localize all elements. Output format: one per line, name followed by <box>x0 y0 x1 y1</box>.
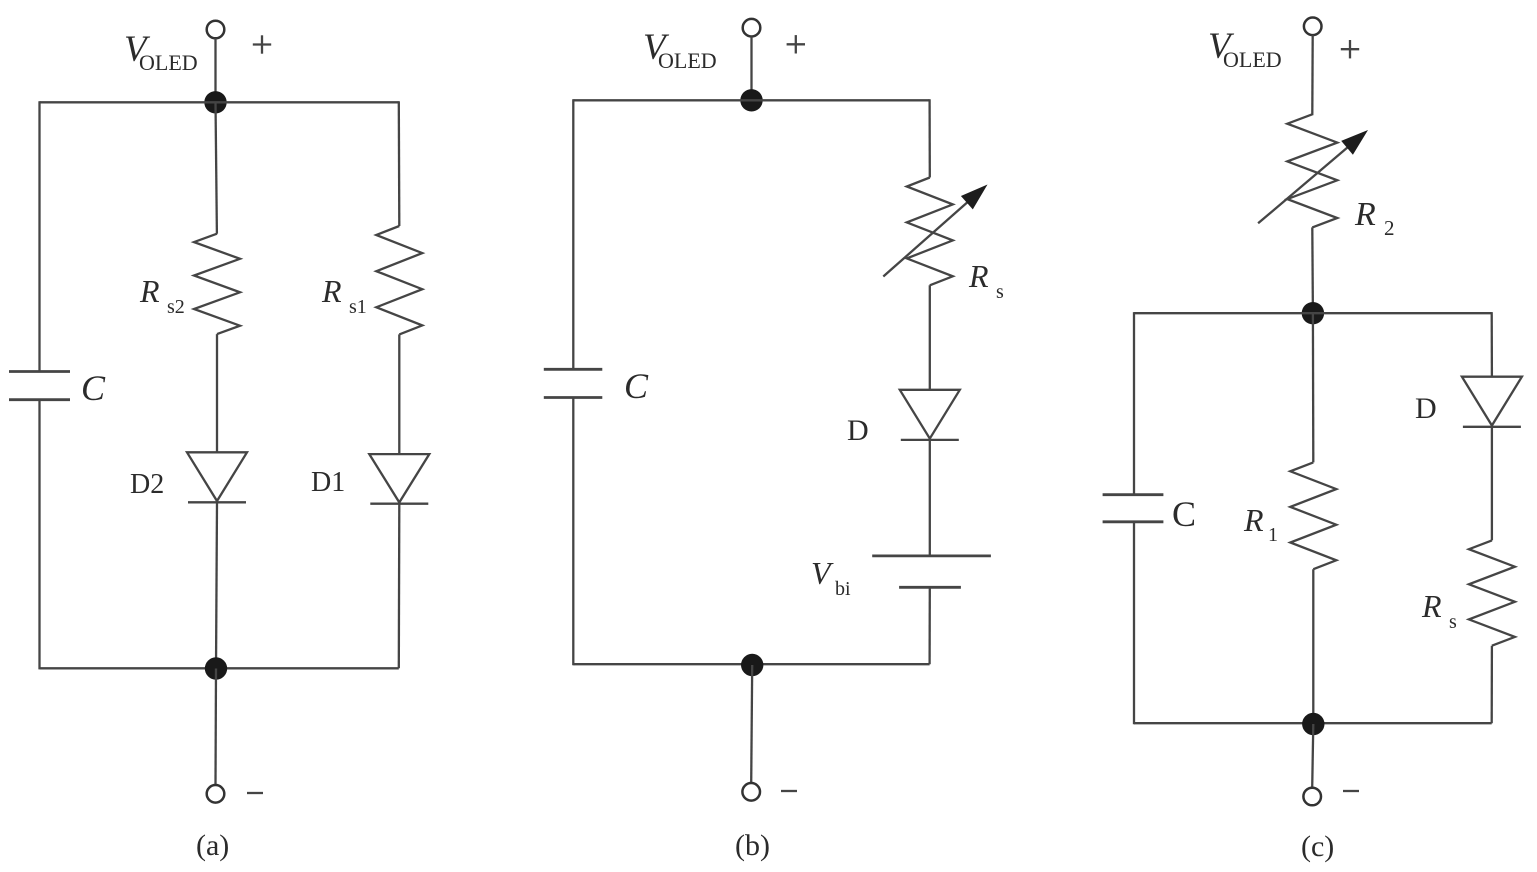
wire right lower (a) <box>398 504 401 669</box>
circuit (c) <box>1103 18 1522 864</box>
wire left upper (b) <box>572 99 574 369</box>
label V_OLED (b) <box>643 27 717 73</box>
wire R2 to node (c) <box>1311 227 1314 313</box>
svg-text:2: 2 <box>1384 216 1395 240</box>
svg-text:C: C <box>1172 494 1196 534</box>
wire right upper (a) <box>398 101 401 226</box>
wire right upper (c) <box>1491 312 1494 377</box>
svg-text:R: R <box>1243 502 1264 538</box>
svg-text:s: s <box>1449 611 1457 633</box>
resistor R1 (c) <box>1290 462 1336 569</box>
svg-text:R: R <box>321 273 342 309</box>
label plus (a) <box>253 35 271 53</box>
svg-text:D: D <box>1415 392 1437 425</box>
svg-text:D: D <box>847 414 869 447</box>
node top (a) <box>204 91 226 113</box>
terminal - bottom (c) <box>1303 788 1321 806</box>
wire bottom rail (b) <box>573 663 929 665</box>
terminal + top (a) <box>207 21 225 39</box>
svg-text:OLED: OLED <box>1223 47 1282 72</box>
wire right upper (b) <box>928 99 931 177</box>
svg-text:(a): (a) <box>196 829 229 862</box>
node bottom (a) <box>205 657 227 679</box>
label Rs (c) <box>1421 588 1457 633</box>
wire middle upper (c) <box>1312 313 1315 462</box>
svg-text:(c): (c) <box>1301 830 1334 863</box>
svg-text:R: R <box>1421 588 1442 624</box>
variable resistor Rs (b) <box>907 178 953 286</box>
svg-text:R: R <box>968 258 989 294</box>
wire bottom rail (c) <box>1134 722 1492 724</box>
node bottom (b) <box>741 654 763 676</box>
wire bottom terminal (b) <box>751 665 752 783</box>
variable resistor R2 (c) <box>1287 114 1337 227</box>
wire middle lower (c) <box>1312 569 1314 723</box>
label Rs1 (a) <box>321 273 367 318</box>
svg-text:s: s <box>996 281 1004 303</box>
node top (b) <box>740 89 762 111</box>
wire middle upper (a) <box>216 102 217 233</box>
capacitor C (a) <box>9 372 70 400</box>
battery Vbi (b) <box>872 556 991 587</box>
svg-text:R: R <box>1354 196 1376 233</box>
svg-text:bi: bi <box>835 578 851 600</box>
svg-text:C: C <box>624 366 649 406</box>
resistor Rs2 (a) <box>194 234 240 334</box>
svg-text:1: 1 <box>1268 524 1278 546</box>
wire left upper (c) <box>1133 312 1135 495</box>
svg-text:OLED: OLED <box>658 48 717 73</box>
wire right lower (c) <box>1491 646 1494 724</box>
label V_OLED (c) <box>1208 26 1282 72</box>
arrow of variable resistor R2 (c) <box>1258 130 1368 223</box>
wire right mid (c) <box>1491 427 1493 541</box>
svg-text:(b): (b) <box>735 829 770 862</box>
wire top rail (b) <box>573 99 929 101</box>
label minus (a) <box>247 792 263 794</box>
wire right lower (b) <box>928 587 931 664</box>
wire bottom terminal (c) <box>1312 724 1313 788</box>
label R2 (c) <box>1354 196 1395 240</box>
diode D2 (a) <box>187 452 247 502</box>
wire left lower (a) <box>38 400 40 670</box>
circuit (b) <box>544 19 1004 862</box>
svg-text:D2: D2 <box>130 469 164 500</box>
label minus (c) <box>1343 790 1359 792</box>
diode D (c) <box>1462 377 1522 427</box>
circuit (a) <box>9 21 429 862</box>
wire bottom rail (a) <box>40 667 399 669</box>
wire top terminal (a) <box>214 38 216 102</box>
arrow of variable resistor Rs (b) <box>883 185 987 277</box>
terminal + top (c) <box>1304 18 1322 36</box>
wire right mid1 (b) <box>929 285 931 390</box>
wire left lower (b) <box>572 398 574 666</box>
wire top rail (a) <box>40 101 399 103</box>
node bottom (c) <box>1302 713 1324 735</box>
svg-text:s2: s2 <box>167 296 185 318</box>
label V_OLED (a) <box>124 29 198 75</box>
diode D (b) <box>900 390 960 440</box>
svg-text:D1: D1 <box>311 467 345 498</box>
resistor Rs1 (a) <box>376 226 422 334</box>
label Vbi (b) <box>811 555 851 600</box>
wire right mid (a) <box>398 334 400 454</box>
wire top rail (c) <box>1134 312 1492 314</box>
wire right mid2 (b) <box>929 440 931 556</box>
wire middle lower (a) <box>216 502 217 668</box>
svg-text:C: C <box>81 368 106 408</box>
capacitor C (c) <box>1103 495 1164 522</box>
capacitor C (b) <box>544 369 603 397</box>
node top (c) <box>1302 302 1324 324</box>
wire top terminal (b) <box>750 37 752 101</box>
wire left lower (c) <box>1133 522 1135 725</box>
wire middle mid (a) <box>216 334 218 452</box>
terminal + top (b) <box>743 19 761 37</box>
diode D1 (a) <box>369 454 429 504</box>
svg-text:OLED: OLED <box>139 50 198 75</box>
svg-text:R: R <box>139 273 160 309</box>
label Rs2 (a) <box>139 273 185 318</box>
terminal - bottom (a) <box>207 785 225 803</box>
label minus (b) <box>781 790 797 792</box>
label Rs (b) <box>968 258 1004 303</box>
wire top terminal (c) <box>1311 35 1314 115</box>
label R1 (c) <box>1243 502 1278 546</box>
terminal - bottom (b) <box>742 783 760 801</box>
label plus (c) <box>1341 40 1359 58</box>
wire bottom terminal (a) <box>214 669 217 786</box>
wire left upper (a) <box>38 101 40 371</box>
label plus (b) <box>787 35 805 53</box>
resistor Rs (c) <box>1469 540 1515 645</box>
svg-text:s1: s1 <box>349 296 367 318</box>
